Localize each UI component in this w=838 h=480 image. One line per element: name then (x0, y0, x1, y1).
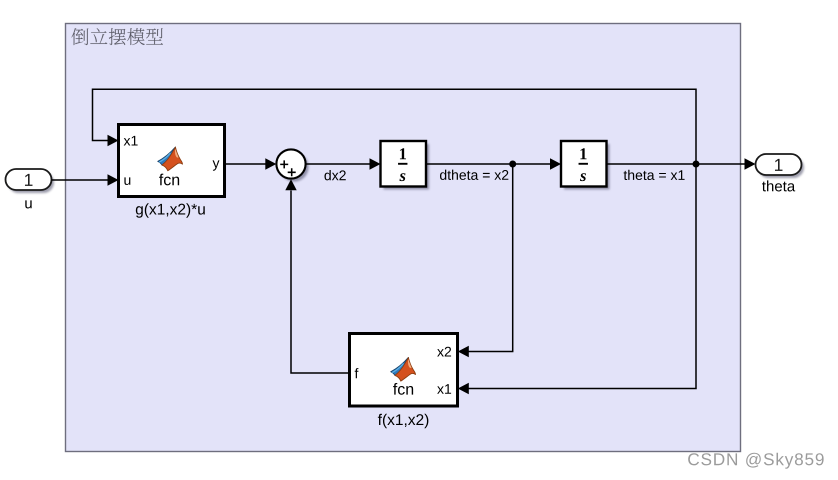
MATLAB Function block g(x1,x2)*u (119, 125, 225, 197)
junction dot dtheta (509, 161, 516, 168)
area title 倒立摆模型 (71, 28, 163, 45)
wire y to sum (225, 158, 277, 169)
signal label theta = x1 (624, 170, 685, 180)
integrator block 1/s (first) (381, 141, 430, 190)
wire integrator1 to integrator2 dtheta=x2 (426, 158, 561, 169)
subsystem area box (66, 24, 741, 452)
watermark CSDN @Sky859 (688, 453, 823, 469)
label g(x1,x2)*u (136, 203, 205, 217)
feedback wire theta=x1 to f block x1 input (458, 164, 696, 394)
inport 1 (u) (6, 169, 55, 193)
signal label dtheta = x2 (440, 170, 508, 180)
label theta (762, 180, 795, 191)
sum block (276, 149, 308, 181)
wire f output to sum bottom input (285, 179, 349, 373)
wire u to g block input (52, 174, 119, 185)
outport 1 (theta) (756, 154, 805, 178)
wire integrator2 to outport theta=x1 (607, 158, 756, 169)
integrator block 1/s (second) (561, 141, 610, 190)
junction dot theta (693, 161, 700, 168)
label f(x1,x2) (378, 414, 429, 428)
signal label dx2 (324, 170, 345, 180)
label u (25, 200, 31, 208)
feedback wire dtheta=x2 to f block x2 input (458, 164, 513, 357)
feedback wire theta=x1 to g block x1 input (93, 89, 697, 164)
MATLAB Function block f(x1,x2) (350, 334, 458, 407)
wire sum to integrator 1 (306, 158, 380, 169)
